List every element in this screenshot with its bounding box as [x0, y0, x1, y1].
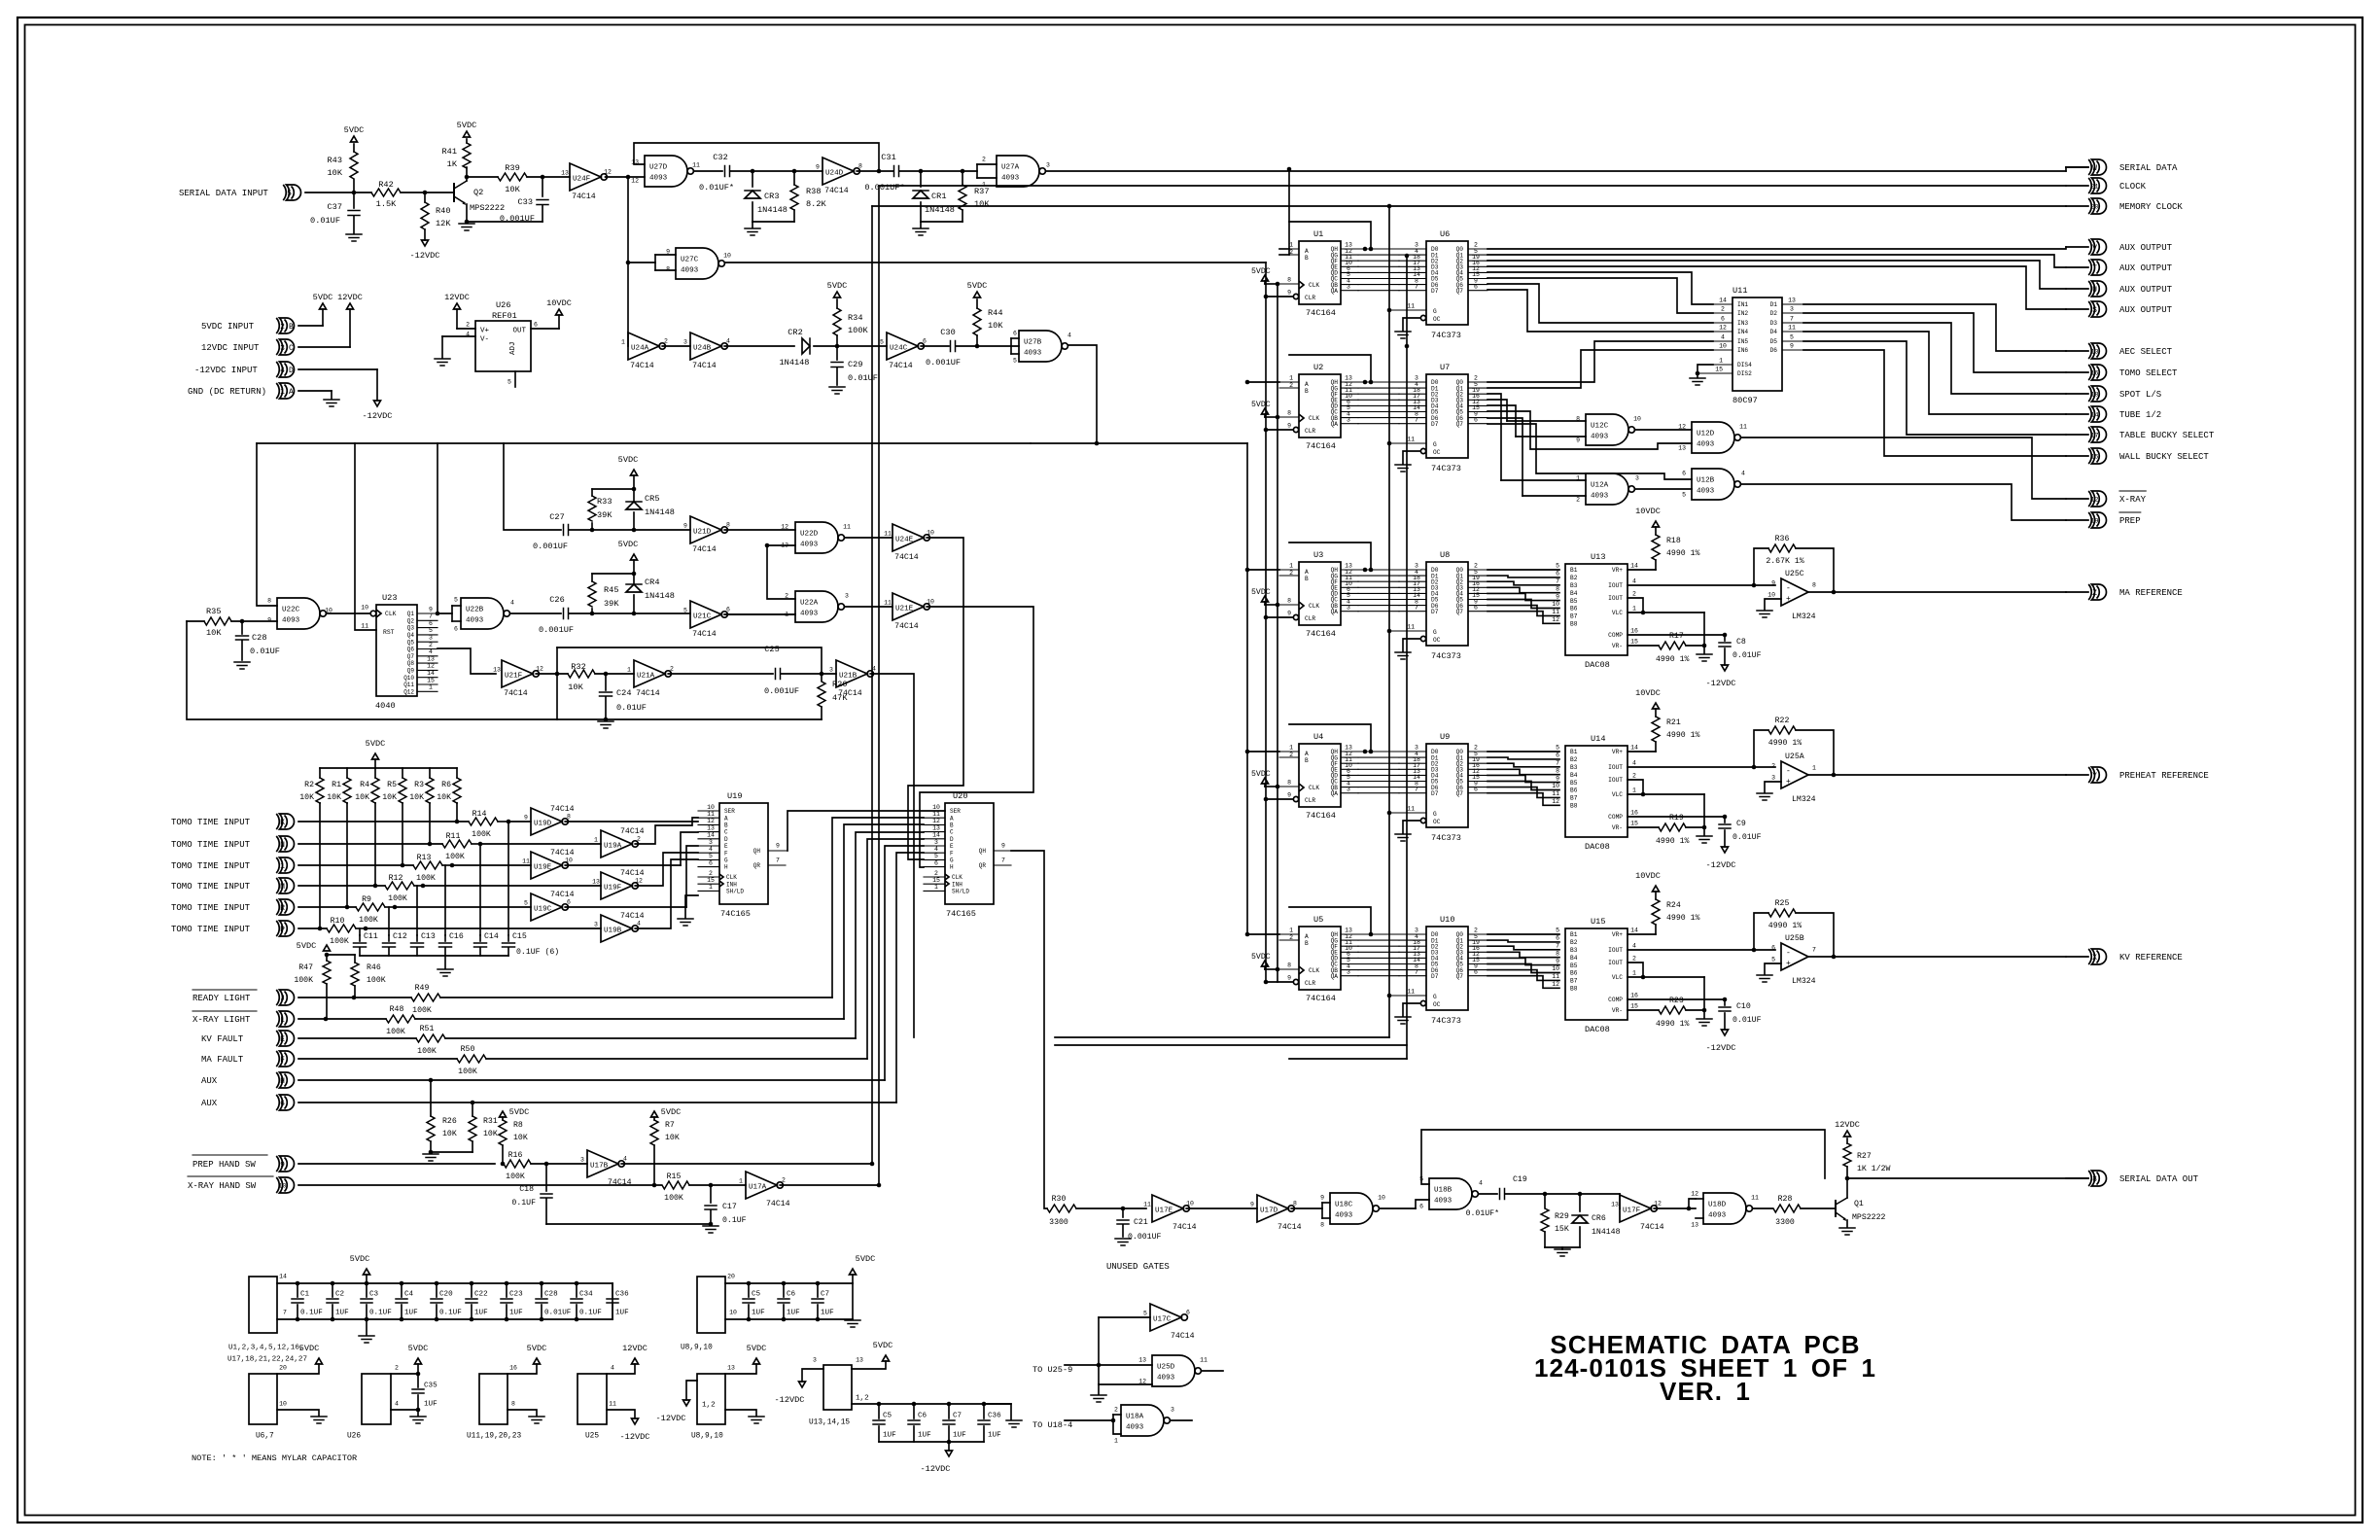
svg-text:B: B: [1305, 757, 1309, 764]
connector 6 AUX: [280, 1095, 295, 1110]
op-amp U25A LM324: [1781, 761, 1808, 788]
svg-text:C12: C12: [393, 932, 407, 941]
svg-text:5VDC: 5VDC: [299, 1344, 320, 1353]
nand U22D: [795, 522, 838, 553]
ic U13 DAC08: [1565, 564, 1627, 655]
capacitor C37: [353, 192, 355, 208]
svg-text:SPOT L/S: SPOT L/S: [2119, 390, 2161, 400]
svg-text:12: 12: [1678, 423, 1686, 430]
svg-text:10VDC: 10VDC: [1635, 871, 1661, 881]
svg-text:6: 6: [1474, 604, 1478, 611]
svg-text:C7: C7: [821, 1291, 829, 1299]
svg-text:U25A: U25A: [1785, 752, 1804, 761]
wire U3 CLR stub: [1266, 616, 1293, 618]
svg-text:C30: C30: [940, 328, 955, 337]
resistor R19: [1627, 826, 1659, 828]
svg-text:VR-: VR-: [1612, 1007, 1623, 1014]
svg-text:13: 13: [727, 1364, 735, 1371]
power 5VDC input riser: [320, 303, 327, 309]
svg-text:2: 2: [1632, 591, 1636, 598]
svg-text:C4: C4: [404, 1291, 414, 1299]
svg-text:12: 12: [932, 818, 940, 824]
capacitor C8: [1723, 633, 1728, 638]
svg-text:74C373: 74C373: [1431, 1016, 1461, 1026]
svg-text:-12VDC: -12VDC: [1706, 1043, 1736, 1053]
power 5VDC CR5: [633, 475, 635, 489]
svg-text:U3: U3: [1313, 550, 1323, 560]
svg-text:20: 20: [2090, 203, 2098, 211]
svg-text:-12VDC: -12VDC: [363, 411, 393, 421]
svg-text:OC: OC: [1433, 1001, 1441, 1008]
wire TOMO row left: [298, 821, 469, 822]
svg-text:-12VDC: -12VDC: [620, 1432, 650, 1442]
svg-text:1K 1/2W: 1K 1/2W: [1857, 1164, 1890, 1173]
wire U27A out - SERIAL DATA line: [1046, 170, 2066, 172]
svg-text:U13,14,15: U13,14,15: [809, 1419, 850, 1427]
svg-text:8: 8: [1320, 1221, 1324, 1228]
inverter U19A: [601, 830, 632, 857]
svg-text:B2: B2: [1570, 939, 1578, 946]
svg-text:C9: C9: [1736, 820, 1746, 828]
svg-text:U25B: U25B: [1785, 934, 1804, 943]
svg-text:C29: C29: [848, 360, 862, 369]
wire U24F out: [606, 176, 646, 178]
svg-text:100K: 100K: [458, 1067, 477, 1076]
svg-text:1UF: 1UF: [918, 1432, 931, 1440]
wire U26 ADJ stub: [514, 371, 516, 387]
wire U23 Q6 to U21F: [437, 648, 496, 674]
svg-text:R40: R40: [436, 206, 450, 216]
svg-text:10: 10: [927, 529, 934, 536]
wire U23 Q1 to bus up: [436, 612, 440, 616]
svg-text:VLC: VLC: [1612, 974, 1623, 981]
resistor R14: [469, 818, 498, 825]
svg-text:-12VDC INPUT: -12VDC INPUT: [194, 366, 258, 375]
wire row R to inverter U19C: [395, 906, 531, 908]
svg-text:10: 10: [1186, 1200, 1194, 1207]
nand U25D unused: [1152, 1355, 1195, 1386]
wire MA FAULT riser to U20 D: [867, 839, 924, 1059]
wire cap column: [416, 886, 418, 935]
svg-text:C: C: [950, 829, 954, 836]
svg-text:R4: R4: [360, 781, 369, 789]
resistor R10: [327, 925, 356, 932]
nand U12B: [1692, 469, 1734, 500]
svg-text:COMP: COMP: [1608, 814, 1623, 821]
wire U24E out down: [908, 538, 963, 859]
svg-text:16: 16: [509, 1364, 517, 1371]
svg-text:5VDC: 5VDC: [1251, 267, 1271, 276]
wire U25C plus input ground: [1765, 599, 1781, 610]
svg-text:11: 11: [1739, 423, 1747, 430]
svg-text:3: 3: [934, 839, 938, 846]
svg-text:TOMO TIME INPUT: TOMO TIME INPUT: [171, 818, 251, 827]
connector S AUX OUTPUT: [2066, 308, 2088, 310]
svg-text:R42: R42: [378, 180, 393, 190]
svg-text:VR+: VR+: [1612, 931, 1623, 938]
svg-text:8: 8: [1287, 409, 1291, 416]
wire U18D bracket: [1696, 1198, 1703, 1200]
wire to U24D: [752, 170, 822, 172]
ic U15 DAC08: [1565, 928, 1627, 1020]
wire cap bottom rail: [360, 955, 508, 957]
svg-text:9: 9: [1287, 791, 1291, 798]
svg-text:R14: R14: [472, 810, 487, 819]
capacitor C21: [1122, 1208, 1124, 1217]
svg-text:10K: 10K: [355, 793, 369, 802]
svg-text:1: 1: [739, 1177, 743, 1184]
svg-text:SERIAL DATA INPUT: SERIAL DATA INPUT: [179, 189, 268, 198]
svg-text:1UF: 1UF: [404, 1310, 418, 1317]
wire U15 IOUT to op-amp: [1627, 949, 1775, 951]
capacitor C3: [365, 1281, 369, 1286]
svg-text:13: 13: [1611, 1201, 1619, 1207]
inverter U17F: [1620, 1195, 1651, 1222]
svg-text:19: 19: [2090, 517, 2098, 525]
power 5VDC R8: [500, 1111, 507, 1117]
connector 9 PREP HAND SW: [280, 1156, 295, 1172]
wire U22D out: [845, 537, 892, 539]
capacitor C28: [241, 621, 243, 634]
svg-text:IN3: IN3: [1737, 320, 1748, 327]
svg-text:+: +: [1786, 595, 1791, 604]
connector J READY LIGHT: [280, 990, 295, 1005]
svg-text:9: 9: [1320, 1194, 1324, 1201]
svg-text:14: 14: [1630, 563, 1638, 570]
svg-text:D7: D7: [1431, 288, 1439, 295]
svg-text:13: 13: [1678, 444, 1686, 451]
svg-text:C26: C26: [549, 595, 564, 605]
svg-text:12: 12: [536, 665, 543, 672]
svg-text:-12VDC: -12VDC: [921, 1464, 951, 1474]
svg-text:U24B: U24B: [693, 345, 712, 353]
svg-text:0.01UF: 0.01UF: [250, 647, 280, 656]
svg-text:D7: D7: [1431, 973, 1439, 980]
svg-text:2: 2: [934, 870, 938, 877]
resistor R5: [402, 768, 403, 778]
svg-text:B7: B7: [1570, 613, 1578, 620]
svg-text:TOMO TIME INPUT: TOMO TIME INPUT: [171, 882, 251, 892]
wire U12A out to U12B: [1635, 488, 1692, 490]
svg-text:9: 9: [267, 616, 271, 623]
svg-text:10: 10: [279, 1400, 287, 1407]
svg-text:15: 15: [1630, 821, 1638, 827]
wire U17C input: [1099, 1316, 1150, 1318]
power 5VDC U8 group: [753, 1358, 760, 1364]
inverter U21F: [502, 660, 533, 687]
svg-text:10K: 10K: [988, 321, 1003, 331]
svg-text:R10: R10: [331, 917, 345, 926]
svg-text:PREP HAND SW: PREP HAND SW: [192, 1160, 256, 1170]
inverter U21E: [892, 593, 924, 620]
svg-text:R44: R44: [988, 308, 1002, 318]
wire U1 CLR stub: [1266, 296, 1293, 297]
wire U25 12VDC: [607, 1364, 635, 1374]
svg-text:CR6: CR6: [1592, 1214, 1606, 1223]
wire grid column: [346, 803, 348, 907]
svg-text:2: 2: [670, 665, 674, 672]
svg-text:100K: 100K: [445, 853, 465, 861]
svg-text:6: 6: [280, 1100, 285, 1108]
svg-text:2: 2: [1114, 1406, 1118, 1413]
svg-text:0.01UF: 0.01UF: [1732, 1016, 1762, 1025]
svg-text:Q2: Q2: [407, 617, 415, 624]
svg-text:12: 12: [1552, 798, 1559, 805]
svg-text:10: 10: [361, 604, 368, 611]
svg-text:5: 5: [1556, 745, 1559, 752]
svg-text:11: 11: [932, 811, 940, 818]
svg-text:3300: 3300: [1775, 1218, 1795, 1227]
svg-text:0.001UF: 0.001UF: [764, 686, 799, 696]
svg-text:100K: 100K: [388, 894, 407, 903]
wire U21C out into U22A pin1: [724, 613, 795, 615]
svg-text:11: 11: [884, 530, 892, 537]
wire 5VDC INPUT: [298, 325, 323, 327]
svg-text:15: 15: [427, 677, 435, 683]
wire QH feedforward staircase: [1289, 222, 1371, 249]
svg-text:4: 4: [623, 1155, 627, 1162]
svg-text:6: 6: [454, 625, 458, 632]
svg-text:D7: D7: [1431, 609, 1439, 615]
svg-text:U: U: [2092, 286, 2097, 295]
wire U13 VLC: [1627, 612, 1704, 613]
wire cap bank rails: [277, 1282, 612, 1284]
svg-text:9: 9: [1790, 343, 1794, 350]
wire cap column: [507, 822, 509, 935]
resistor R24: [1627, 933, 1656, 935]
svg-text:U10: U10: [1440, 915, 1454, 925]
svg-text:5VDC: 5VDC: [661, 1107, 682, 1117]
connector U AUX OUTPUT: [2066, 288, 2088, 290]
power 5VDC cap bank: [366, 1275, 367, 1283]
svg-text:4: 4: [1479, 1179, 1483, 1186]
wire U17A out vertical to top: [878, 186, 880, 1185]
svg-text:15: 15: [1715, 366, 1723, 372]
ground R29: [1555, 1248, 1570, 1250]
ic power box U6,7: [249, 1374, 277, 1424]
svg-text:U21B: U21B: [839, 673, 857, 681]
svg-text:OC: OC: [1433, 316, 1441, 323]
resistor R3: [429, 768, 431, 778]
nand U12A: [1586, 473, 1628, 505]
svg-text:4093: 4093: [1001, 175, 1020, 183]
svg-text:2: 2: [1632, 773, 1636, 780]
wire READY row: [298, 997, 411, 998]
svg-text:1N4148: 1N4148: [645, 507, 675, 517]
svg-text:RST: RST: [383, 629, 395, 636]
svg-text:9: 9: [429, 606, 433, 612]
svg-text:VR+: VR+: [1612, 749, 1623, 755]
svg-text:6: 6: [1474, 283, 1478, 290]
power -12VDC C9: [1722, 847, 1729, 853]
ic U23 4040: [370, 611, 376, 616]
svg-text:9: 9: [1287, 974, 1291, 981]
wire U6,7 5VDC: [277, 1364, 319, 1374]
svg-text:D7: D7: [1431, 790, 1439, 797]
ic power box U8,9,10 supply: [697, 1374, 725, 1424]
wire GND input: [298, 390, 332, 392]
svg-text:R33: R33: [597, 497, 612, 507]
svg-text:9: 9: [776, 842, 780, 849]
diode CR4: [632, 612, 637, 616]
svg-text:CLK: CLK: [1309, 415, 1319, 422]
svg-text:80C97: 80C97: [1732, 396, 1758, 405]
wire U13 group 5VDC: [852, 1361, 886, 1369]
svg-text:U1,2,3,4,5,12,16,: U1,2,3,4,5,12,16,: [228, 1345, 303, 1352]
svg-text:0.1UF: 0.1UF: [300, 1310, 323, 1317]
svg-text:0.01UF*: 0.01UF*: [1466, 1208, 1499, 1218]
svg-text:IN4: IN4: [1737, 329, 1748, 335]
svg-text:1UF: 1UF: [509, 1310, 523, 1317]
svg-text:74C164: 74C164: [1306, 441, 1336, 451]
inverter U19C: [531, 893, 562, 921]
wire U26 5VDC: [391, 1364, 418, 1374]
svg-text:C24: C24: [616, 688, 631, 698]
capacitor C14: [479, 935, 481, 941]
svg-text:100K: 100K: [386, 1028, 405, 1036]
svg-text:D1: D1: [1770, 301, 1778, 308]
svg-text:74C164: 74C164: [1306, 994, 1336, 1003]
svg-text:4: 4: [709, 846, 713, 853]
svg-text:10K: 10K: [206, 628, 222, 638]
svg-text:R45: R45: [604, 585, 618, 595]
svg-text:C22: C22: [474, 1291, 488, 1299]
capacitor C9: [1723, 815, 1728, 820]
svg-text:0.01UF: 0.01UF: [1732, 833, 1762, 842]
power 5VDC R41: [464, 131, 471, 137]
svg-text:6: 6: [1721, 316, 1725, 323]
wire U15 VLC: [1627, 976, 1704, 978]
wire TO U25-9: [1065, 1364, 1152, 1366]
resistor R17: [1627, 645, 1659, 647]
svg-text:11: 11: [692, 161, 700, 168]
wire U18A bracket: [1113, 1420, 1121, 1434]
svg-text:10VDC: 10VDC: [546, 298, 572, 308]
svg-text:10K: 10K: [505, 185, 520, 194]
resistor R9: [356, 903, 385, 911]
svg-text:10K: 10K: [327, 793, 341, 802]
svg-text:3300: 3300: [1049, 1218, 1068, 1227]
svg-text:C37: C37: [328, 202, 342, 212]
svg-text:C14: C14: [484, 932, 499, 941]
svg-text:5VDC: 5VDC: [366, 739, 386, 749]
nand U27B: [1019, 331, 1062, 362]
svg-text:U8,9,10: U8,9,10: [681, 1345, 713, 1352]
svg-text:74C14: 74C14: [504, 689, 528, 698]
svg-text:11: 11: [609, 1400, 616, 1407]
ic U19 74C165: [719, 803, 768, 904]
wire AUX riser to U20 F: [896, 853, 924, 1102]
svg-text:4: 4: [1632, 943, 1636, 950]
svg-text:11: 11: [1143, 1201, 1151, 1207]
svg-text:10VDC: 10VDC: [1635, 688, 1661, 698]
svg-text:U26: U26: [496, 300, 510, 310]
wire U26 V- to ground: [442, 335, 475, 337]
wire U13 group -12VDC: [802, 1369, 823, 1382]
svg-text:10: 10: [927, 598, 934, 605]
svg-text:100K: 100K: [294, 976, 313, 985]
resistor R15: [662, 1181, 689, 1189]
wire U19E out to U19: [565, 864, 681, 866]
svg-text:74C14: 74C14: [894, 622, 919, 631]
power 5VDC resistor grid rail: [320, 767, 457, 769]
wire bus down from U24F node: [627, 177, 629, 346]
svg-text:10: 10: [932, 804, 940, 811]
svg-text:TOMO SELECT: TOMO SELECT: [2119, 368, 2178, 378]
svg-text:KV REFERENCE: KV REFERENCE: [2119, 953, 2183, 962]
svg-text:5VDC: 5VDC: [618, 540, 639, 549]
ic U10 74C373: [1426, 927, 1468, 1010]
svg-text:0.01UF: 0.01UF: [1732, 651, 1762, 660]
ground C24: [598, 720, 613, 722]
ground C17: [703, 1225, 718, 1227]
svg-text:Q12: Q12: [403, 688, 414, 695]
svg-text:5VDC: 5VDC: [527, 1344, 547, 1353]
svg-text:20: 20: [279, 1364, 287, 1371]
svg-text:CLR: CLR: [1305, 295, 1315, 301]
ic power box U13,14,15: [823, 1365, 852, 1410]
wire U8 G bus: [1387, 629, 1392, 634]
svg-text:6: 6: [726, 606, 730, 612]
svg-text:H: H: [724, 864, 728, 871]
svg-text:4093: 4093: [1708, 1212, 1727, 1220]
svg-text:R48: R48: [390, 1005, 404, 1014]
svg-text:A: A: [1305, 248, 1309, 255]
resistor R1: [346, 768, 348, 778]
wire U27C input bracket: [628, 262, 655, 263]
svg-text:7: 7: [776, 857, 780, 863]
svg-text:R27: R27: [1857, 1152, 1872, 1161]
svg-text:5: 5: [1771, 956, 1775, 962]
svg-text:0.001UF: 0.001UF: [539, 625, 574, 635]
svg-text:U17C: U17C: [1153, 1316, 1172, 1324]
svg-text:1N4148: 1N4148: [1592, 1228, 1621, 1237]
svg-text:14: 14: [1719, 297, 1727, 304]
nand U27D: [645, 156, 687, 187]
svg-text:11: 11: [1407, 623, 1415, 630]
wire R33 CR5 top: [592, 488, 634, 490]
svg-text:VR+: VR+: [1612, 567, 1623, 574]
svg-text:3: 3: [1790, 306, 1794, 313]
resistor R43: [353, 180, 355, 192]
svg-text:10K: 10K: [665, 1134, 680, 1142]
nand U12C: [1586, 414, 1628, 445]
svg-text:16: 16: [2090, 369, 2098, 377]
svg-text:13: 13: [1691, 1221, 1698, 1228]
ground C37: [346, 233, 362, 235]
svg-text:5VDC: 5VDC: [457, 121, 477, 130]
resistor R26: [430, 1080, 432, 1116]
svg-text:5: 5: [454, 596, 458, 603]
resistor R34: [836, 335, 838, 346]
svg-text:DIS2: DIS2: [1737, 370, 1752, 377]
svg-text:3: 3: [845, 592, 849, 599]
svg-text:6: 6: [709, 859, 713, 866]
capacitor C25: [775, 669, 777, 680]
svg-text:4093: 4093: [1157, 1375, 1175, 1382]
svg-text:QA: QA: [1331, 609, 1339, 615]
svg-text:74C14: 74C14: [894, 553, 919, 562]
svg-text:R20: R20: [832, 680, 847, 689]
svg-text:B3: B3: [1570, 947, 1578, 954]
svg-text:74C14: 74C14: [692, 630, 717, 639]
svg-text:C3: C3: [369, 1291, 379, 1299]
svg-text:6: 6: [1771, 944, 1775, 951]
svg-text:C5: C5: [883, 1413, 892, 1420]
wire U27D out to C32: [694, 170, 722, 172]
resistor R33: [590, 528, 595, 533]
svg-text:1: 1: [429, 684, 433, 691]
